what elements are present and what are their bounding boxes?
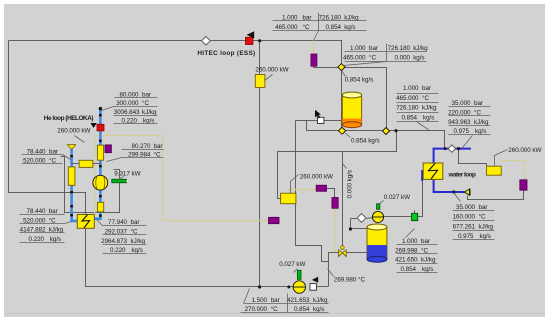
label table top header 2x2 xyxy=(273,13,367,41)
wire green square up to HX2 xyxy=(418,181,423,217)
purple connector water xyxy=(520,180,527,190)
svg-text:300.000: 300.000 xyxy=(116,100,139,107)
green power bar pump3 xyxy=(297,270,301,279)
wire top corner down to diamond node A xyxy=(340,41,342,65)
wire white-square valve line to tank1 xyxy=(296,120,343,122)
storage tank2 water xyxy=(367,224,387,262)
wire junction header down and left manifold xyxy=(278,131,397,199)
svg-text:°C: °C xyxy=(142,99,149,107)
wire junction down to water pump box xyxy=(459,149,487,167)
svg-text:0.975: 0.975 xyxy=(453,128,469,135)
yellow diamond node C xyxy=(382,128,389,135)
He loop blue right branch xyxy=(99,108,102,124)
junction tank2 feed xyxy=(349,227,352,230)
label table 80.270 xyxy=(107,143,164,161)
svg-text:3006.843: 3006.843 xyxy=(114,109,140,116)
purple connector He xyxy=(105,145,111,153)
water loop blue stub into HX2 left xyxy=(421,170,423,181)
black flag on white square xyxy=(312,277,318,283)
svg-text:1.500: 1.500 xyxy=(251,297,267,304)
wire riser to mixing valve xyxy=(329,253,339,287)
wire diamond to pump2 xyxy=(367,218,373,219)
khaki water box to purple connector xyxy=(502,161,525,180)
yellow pipe component He left xyxy=(68,167,75,185)
yellow pipe component He right upper xyxy=(97,145,103,160)
label table 78.440 top xyxy=(22,148,71,164)
wire header y=130.7 xyxy=(307,131,445,149)
svg-text:0.854: 0.854 xyxy=(294,306,310,313)
svg-text:0.854 kg/s: 0.854 kg/s xyxy=(345,76,374,83)
svg-text:water loop: water loop xyxy=(448,172,477,179)
white diamond node water header xyxy=(448,145,456,152)
wire staircase down from valve line xyxy=(296,121,329,287)
svg-text:0.854: 0.854 xyxy=(400,266,416,273)
svg-text:kJ/kg: kJ/kg xyxy=(422,105,437,112)
svg-text:465.000: 465.000 xyxy=(396,95,419,102)
black triangle marker He loop xyxy=(90,123,96,128)
svg-text:kJ/kg: kJ/kg xyxy=(474,119,489,126)
junction water header xyxy=(444,147,447,150)
svg-text:2964.873: 2964.873 xyxy=(101,238,127,245)
junction water header at box drop xyxy=(457,147,460,150)
svg-text:0.027 kW: 0.027 kW xyxy=(384,194,410,201)
svg-text:260.000 kW: 260.000 kW xyxy=(300,173,333,180)
junction top header / bypass xyxy=(258,39,261,42)
khaki He-loop top edge xyxy=(95,135,163,137)
yellow diamond node B xyxy=(338,127,345,134)
label table top right 2x2 xyxy=(343,44,428,66)
wire diamond A right then down to diamond C xyxy=(345,68,387,128)
red square logic He loop xyxy=(97,124,104,131)
svg-text:kg/s: kg/s xyxy=(313,306,324,313)
white square valve bottom xyxy=(310,284,316,291)
junction bottom bypass xyxy=(258,285,261,288)
svg-text:bar: bar xyxy=(421,238,430,245)
wire stub from table to outline xyxy=(61,157,65,165)
pump3 xyxy=(293,281,305,293)
wire HITEC below HX1 to bottom line xyxy=(86,229,294,287)
svg-text:0.854 kg/s: 0.854 kg/s xyxy=(351,137,380,144)
yellow diamond node A xyxy=(338,64,345,71)
purple connector mid-v xyxy=(332,198,338,209)
svg-text:677.261: 677.261 xyxy=(453,224,476,231)
svg-text:726.180: 726.180 xyxy=(396,105,419,112)
label table 35.000 160 xyxy=(453,193,495,241)
svg-text:kJ/kg: kJ/kg xyxy=(313,297,328,304)
purple connector top (from khaki stub) xyxy=(311,54,317,66)
svg-text:He loop (HELOKA): He loop (HELOKA) xyxy=(44,115,94,122)
svg-text:bar: bar xyxy=(49,208,58,215)
wire T-branch down xyxy=(306,121,308,131)
svg-text:kg/s: kg/s xyxy=(344,24,355,31)
wire pump2 to green square xyxy=(384,216,412,218)
khaki He-loop left vertical xyxy=(94,136,96,215)
yellow pipe component He right lower xyxy=(97,202,103,212)
svg-text:0.220: 0.220 xyxy=(110,247,126,254)
funnel source He loop xyxy=(68,145,76,150)
heat exchanger HX2 water xyxy=(423,163,443,179)
svg-text:°C: °C xyxy=(479,213,486,221)
wire valve to tank2 xyxy=(346,252,367,254)
label table tank2 right xyxy=(395,229,437,274)
wire valve arrow to purple connector xyxy=(468,191,524,200)
green square motor xyxy=(412,213,418,220)
junction blue HX2 outlet xyxy=(452,190,455,193)
junction bottom before pump3 xyxy=(287,286,290,289)
leader heater mid xyxy=(291,175,299,194)
svg-text:260.000 kW: 260.000 kW xyxy=(57,128,90,135)
pump2 xyxy=(372,211,383,222)
purple connector mid-h xyxy=(316,185,326,191)
svg-text:260.000 kW: 260.000 kW xyxy=(508,147,541,154)
svg-text:°C: °C xyxy=(271,305,278,313)
compressor circle He xyxy=(93,175,108,190)
He loop blue left branch xyxy=(70,149,73,167)
khaki stub top to purple connector xyxy=(313,41,315,55)
label table right of tank1 xyxy=(396,85,438,130)
white diamond node pump2 suction xyxy=(357,214,366,223)
white square valve tank1 inlet xyxy=(318,117,324,123)
svg-text:°C: °C xyxy=(422,94,429,102)
svg-text:°C: °C xyxy=(303,23,310,31)
storage tank1 HITEC xyxy=(342,92,361,128)
wire diamond A down to diamond B along tank1 xyxy=(341,71,343,128)
svg-text:943.963: 943.963 xyxy=(448,119,471,126)
khaki heater box to purple connector xyxy=(289,190,317,194)
svg-text:0.027 kW: 0.027 kW xyxy=(279,261,305,268)
svg-text:kg/s: kg/s xyxy=(423,114,434,121)
svg-text:1.000: 1.000 xyxy=(402,238,418,245)
black flag on red square HITEC xyxy=(247,31,255,38)
green power bar pump2 xyxy=(377,204,380,210)
svg-text:421.650: 421.650 xyxy=(395,257,418,264)
water pump yellow box xyxy=(487,166,502,175)
wire 0.000 kg/s line down to khaki valve xyxy=(342,152,344,247)
svg-text:HITEC loop (ESS): HITEC loop (ESS) xyxy=(197,50,255,57)
svg-text:°C: °C xyxy=(369,53,376,61)
label table He bottom-left xyxy=(20,208,72,243)
svg-text:421.653: 421.653 xyxy=(287,297,310,304)
svg-text:kg/s: kg/s xyxy=(413,54,424,61)
black ticks on blue lines xyxy=(72,114,101,217)
wire purple top down to diamond A xyxy=(314,67,338,68)
svg-text:0.000 kg/s: 0.000 kg/s xyxy=(347,170,354,199)
heater box 260kW mid xyxy=(281,193,296,204)
red square logic HITEC xyxy=(246,37,253,44)
wire riser down to tank2 xyxy=(351,219,368,229)
ESS charge heater box on bypass xyxy=(255,75,265,88)
wire compressor group outline xyxy=(65,165,120,213)
svg-text:kJ/kg: kJ/kg xyxy=(142,109,157,116)
svg-text:0.854: 0.854 xyxy=(325,24,341,31)
svg-text:270.000: 270.000 xyxy=(245,306,268,313)
wire pump2 suction riser xyxy=(351,218,357,220)
leader ESS heater xyxy=(265,75,273,81)
junction header y130 xyxy=(394,129,397,132)
svg-text:269.980 °C: 269.980 °C xyxy=(334,275,366,283)
yellow box He (gear) xyxy=(79,160,93,167)
wire HITEC bypass vertical xyxy=(259,41,261,287)
label table He top xyxy=(102,92,158,125)
wire HITEC left down xyxy=(9,41,86,215)
svg-text:kJ/kg: kJ/kg xyxy=(131,238,146,245)
svg-text:35.000: 35.000 xyxy=(456,204,476,211)
svg-text:kg/s: kg/s xyxy=(132,247,143,254)
svg-text:bar: bar xyxy=(422,85,431,92)
svg-text:kJ/kg: kJ/kg xyxy=(421,257,436,264)
wire purple link between connectors xyxy=(327,189,335,198)
svg-text:kg/s: kg/s xyxy=(422,266,433,273)
khaki right vertical xyxy=(162,136,164,221)
wire HITEC top header xyxy=(9,40,340,42)
svg-text:bar: bar xyxy=(154,143,163,150)
svg-text:1.000: 1.000 xyxy=(403,85,419,92)
svg-text:78.440: 78.440 xyxy=(27,208,47,215)
node dot top of He blue line xyxy=(99,107,102,110)
cursor arrow above white square xyxy=(315,110,321,119)
svg-text:260.000 kW: 260.000 kW xyxy=(255,66,288,73)
svg-text:0.854: 0.854 xyxy=(401,114,417,121)
svg-text:kg/s: kg/s xyxy=(480,233,491,240)
water loop blue HX2 outlet xyxy=(434,179,465,192)
water loop blue header xyxy=(434,149,471,163)
svg-text:9.317 kW: 9.317 kW xyxy=(114,170,140,177)
valve arrow water xyxy=(464,189,469,195)
wire white square2 to riser xyxy=(317,286,329,288)
white diamond node HITEC top xyxy=(202,37,211,45)
svg-text:80.270: 80.270 xyxy=(132,143,152,150)
svg-text:0.975: 0.975 xyxy=(458,233,474,240)
link gear to blue lines xyxy=(72,163,80,165)
svg-text:0.000: 0.000 xyxy=(394,54,410,61)
svg-text:bar: bar xyxy=(271,297,280,304)
khaki control valve xyxy=(339,246,347,257)
svg-text:kg/s: kg/s xyxy=(475,128,486,135)
purple connector left-h xyxy=(269,217,280,223)
label table 77.940 xyxy=(97,219,147,254)
svg-text:0.220: 0.220 xyxy=(28,236,44,243)
svg-text:160.000: 160.000 xyxy=(453,214,476,221)
svg-text:kJ/kg: kJ/kg xyxy=(479,224,494,231)
svg-text:465.000: 465.000 xyxy=(343,54,366,61)
svg-text:bar: bar xyxy=(479,204,488,211)
heat exchanger HX1 He/HITEC xyxy=(77,215,94,229)
svg-text:kg/s: kg/s xyxy=(50,236,61,243)
green power bar compressor xyxy=(112,179,127,182)
khaki purple to khaki valve xyxy=(335,209,339,251)
label table bottom 2x2 xyxy=(241,289,329,314)
label table 35.000 220 xyxy=(448,100,490,147)
khaki bottom run to purple connector xyxy=(163,220,269,222)
svg-text:465.000: 465.000 xyxy=(275,24,298,31)
